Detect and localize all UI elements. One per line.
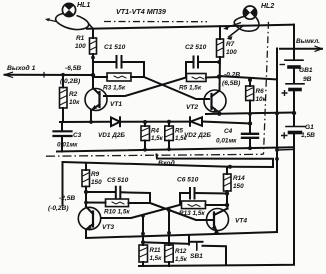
svg-text:R11: R11 bbox=[150, 247, 161, 254]
svg-text:HL2: HL2 bbox=[261, 3, 274, 10]
svg-text:GB1: GB1 bbox=[299, 67, 313, 74]
svg-text:VT3: VT3 bbox=[102, 224, 114, 231]
svg-text:C2 510: C2 510 bbox=[185, 44, 207, 51]
svg-text:9В: 9В bbox=[303, 76, 312, 83]
svg-text:VT1: VT1 bbox=[110, 101, 122, 108]
svg-text:-6,5В: -6,5В bbox=[65, 65, 81, 72]
svg-text:G1: G1 bbox=[305, 124, 314, 131]
svg-text:150: 150 bbox=[233, 183, 244, 190]
svg-text:VT1-VT4 МП39: VT1-VT4 МП39 bbox=[116, 7, 166, 16]
svg-text:100: 100 bbox=[226, 49, 237, 56]
svg-text:R2: R2 bbox=[69, 91, 78, 98]
svg-text:VD1 Д2Б: VD1 Д2Б bbox=[98, 132, 125, 139]
svg-text:( 0,2В): ( 0,2В) bbox=[60, 78, 80, 85]
svg-text:R9: R9 bbox=[91, 171, 100, 178]
svg-text:VD2 Д2Б: VD2 Д2Б bbox=[184, 132, 211, 139]
svg-text:C6 510: C6 510 bbox=[177, 177, 199, 184]
svg-text:10к: 10к bbox=[69, 99, 80, 106]
svg-text:0,01мк: 0,01мк bbox=[57, 142, 78, 149]
svg-text:R4: R4 bbox=[151, 128, 159, 135]
svg-text:R1: R1 bbox=[76, 35, 85, 42]
svg-text:C3: C3 bbox=[73, 132, 82, 139]
svg-text:1,5к: 1,5к bbox=[151, 135, 164, 142]
svg-text:10к: 10к bbox=[256, 96, 267, 103]
svg-text:(6,5В): (6,5В) bbox=[222, 80, 240, 87]
svg-text:1,5к: 1,5к bbox=[175, 135, 188, 142]
svg-text:Вход: Вход bbox=[158, 159, 175, 167]
svg-text:C5 510: C5 510 bbox=[107, 177, 129, 184]
svg-text:R10 1,5к: R10 1,5к bbox=[104, 209, 130, 216]
svg-text:R12: R12 bbox=[175, 248, 187, 255]
svg-text:R5: R5 bbox=[175, 128, 183, 135]
svg-text:SB1: SB1 bbox=[190, 253, 203, 260]
svg-text:(-0,2В): (-0,2В) bbox=[48, 205, 69, 212]
svg-text:HL1: HL1 bbox=[77, 2, 90, 9]
svg-text:100: 100 bbox=[75, 43, 86, 50]
svg-text:-0,2В: -0,2В bbox=[224, 72, 240, 79]
svg-text:150: 150 bbox=[91, 179, 102, 186]
svg-text:1,5к: 1,5к bbox=[175, 256, 188, 263]
svg-text:R14: R14 bbox=[233, 175, 245, 182]
svg-text:R7: R7 bbox=[226, 41, 235, 48]
svg-text:Вымкл.: Вымкл. bbox=[296, 38, 320, 45]
svg-text:C1 510: C1 510 bbox=[104, 44, 126, 51]
svg-text:C4: C4 bbox=[224, 128, 233, 135]
svg-text:0,01мк: 0,01мк bbox=[216, 138, 237, 145]
svg-text:Выход 1: Выход 1 bbox=[7, 64, 36, 72]
svg-text:1,5к: 1,5к bbox=[150, 255, 163, 262]
svg-text:1,5В: 1,5В bbox=[301, 132, 315, 139]
svg-text:-2,5В: -2,5В bbox=[59, 195, 75, 202]
svg-text:R6: R6 bbox=[256, 88, 265, 95]
svg-text:R13 1,5к: R13 1,5к bbox=[179, 210, 205, 217]
svg-text:R3 1,5к: R3 1,5к bbox=[103, 85, 126, 92]
svg-text:VT4: VT4 bbox=[235, 218, 247, 225]
svg-text:VT2: VT2 bbox=[186, 104, 198, 111]
svg-text:R5 1,5к: R5 1,5к bbox=[179, 85, 202, 92]
